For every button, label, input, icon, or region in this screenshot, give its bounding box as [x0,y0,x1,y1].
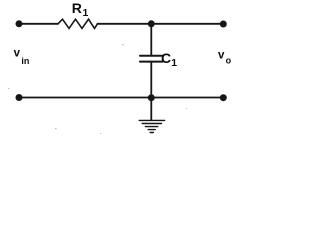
wire: top junction down to capacitor top plate [150,24,152,56]
node: top junction [148,20,155,27]
node: bottom junction [148,94,155,101]
resistor R1 [58,19,98,28]
wire: bottom rail [19,97,223,99]
svg-text:o: o [226,56,232,66]
svg-text:C: C [161,50,171,66]
node: bottom-left terminal [16,94,23,101]
node: top-right terminal [220,21,227,28]
svg-text:1: 1 [171,57,177,69]
scan speckles [8,44,187,134]
svg-text:v: v [218,50,225,62]
svg-text:1: 1 [83,7,89,19]
node: top-left terminal [16,20,23,27]
svg-text:in: in [21,56,29,66]
node: bottom-right terminal [220,94,227,101]
wire: bottom junction down to ground [150,98,152,120]
wire: capacitor bottom plate down to bottom junction [150,62,152,98]
wire: top-left dot to resistor [19,23,58,25]
svg-text:R: R [72,0,82,16]
svg-text:v: v [14,48,21,60]
ground [139,120,164,132]
wire: resistor to top junction and to top-right dot [98,23,224,25]
capacitor C1 [140,56,163,62]
